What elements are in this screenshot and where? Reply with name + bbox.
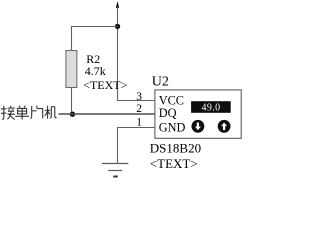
IC U2 box (DS18B20)	[155, 90, 241, 138]
svg-text:U2: U2	[152, 75, 169, 90]
svg-text:2: 2	[136, 103, 142, 115]
svg-text:49.0: 49.0	[201, 102, 220, 113]
label 接单片机 (to MCU) drawn as strokes	[1, 106, 57, 120]
wire: top horizontal to resistor	[71, 26, 118, 28]
wire: GND vertical drop	[117, 128, 119, 164]
svg-text:4.7k: 4.7k	[85, 64, 106, 78]
ground symbol	[102, 164, 129, 177]
svg-text:DS18B20: DS18B20	[150, 141, 201, 156]
char 单	[15, 106, 29, 120]
svg-text:<TEXT>: <TEXT>	[150, 156, 198, 171]
button up	[218, 120, 231, 133]
svg-text:<TEXT>: <TEXT>	[83, 78, 127, 92]
resistor R2 body	[66, 51, 77, 88]
display window 49.0	[191, 101, 231, 113]
svg-text:GND: GND	[159, 121, 186, 135]
power rail arrow (VCC)	[116, 1, 119, 8]
wire: DQ horizontal to MCU label	[59, 113, 156, 115]
wire: resistor bottom lead	[71, 88, 73, 115]
char 接	[1, 106, 15, 120]
svg-text:3: 3	[136, 91, 142, 103]
node: DQ junction dot	[70, 112, 75, 117]
wire: pin 1 horizontal (GND)	[117, 127, 155, 129]
button down	[192, 120, 205, 133]
svg-text:1: 1	[136, 116, 142, 128]
node: junction dot on VCC rail	[115, 24, 120, 29]
char 片	[31, 106, 43, 119]
wire: pin 3 horizontal (VCC)	[117, 100, 155, 102]
wire: resistor top lead	[71, 26, 73, 51]
svg-text:DQ: DQ	[159, 106, 177, 120]
char 机	[45, 106, 57, 119]
wire: VCC vertical rail	[117, 7, 119, 101]
